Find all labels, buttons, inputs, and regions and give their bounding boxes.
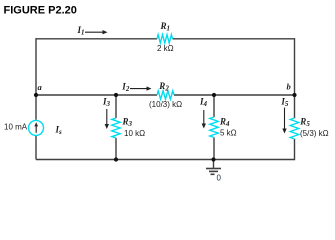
svg-text:0: 0: [217, 174, 222, 183]
svg-text:b: b: [287, 82, 291, 92]
svg-text:FIGURE P2.20: FIGURE P2.20: [4, 5, 77, 17]
svg-text:10 mA: 10 mA: [4, 123, 28, 132]
svg-text:2 kΩ: 2 kΩ: [157, 44, 174, 53]
svg-text:10 kΩ: 10 kΩ: [124, 129, 145, 138]
svg-text:(5/3) kΩ: (5/3) kΩ: [300, 129, 329, 138]
svg-text:5 kΩ: 5 kΩ: [220, 129, 237, 138]
svg-text:(10/3) kΩ: (10/3) kΩ: [149, 100, 182, 109]
